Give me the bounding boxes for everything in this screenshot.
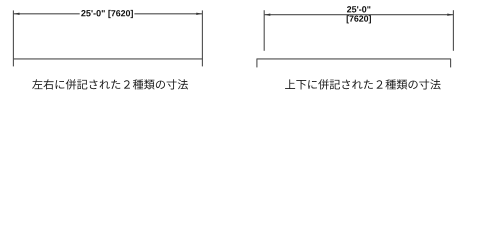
object top edge bbox=[257, 58, 452, 60]
object top edge bbox=[13, 58, 203, 60]
left extension line / object left edge bbox=[12, 10, 14, 66]
dimension text 25'-0" bbox=[81, 10, 105, 16]
dimension text [7620] (below line) bbox=[347, 15, 371, 23]
left extension line bbox=[263, 10, 265, 51]
caption: left-right combined dims bbox=[32, 79, 188, 89]
right arrowhead bbox=[196, 13, 202, 15]
right extension line bbox=[452, 10, 454, 51]
dimension text 25'-0" (above line) bbox=[347, 6, 370, 12]
object left edge (partial) bbox=[256, 59, 258, 68]
dimension text [7620] bbox=[108, 10, 133, 18]
dimension line left segment bbox=[13, 13, 79, 15]
right arrowhead bbox=[447, 14, 453, 16]
right extension line / object right edge bbox=[201, 10, 203, 66]
dimension line right segment bbox=[134, 13, 202, 15]
left arrowhead bbox=[14, 13, 20, 15]
left arrowhead bbox=[265, 14, 271, 16]
caption: above-below combined dims bbox=[285, 79, 441, 89]
object right edge (partial) bbox=[450, 59, 452, 68]
dimension line bbox=[264, 14, 453, 16]
